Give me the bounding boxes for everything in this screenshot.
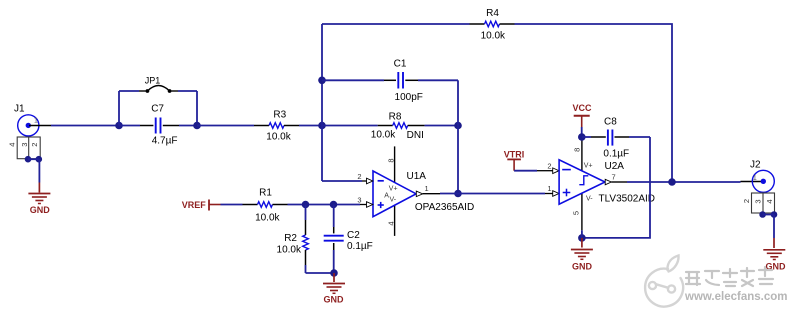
svg-text:V-: V- bbox=[390, 196, 397, 203]
svg-text:3: 3 bbox=[753, 199, 762, 203]
wire C8 right down bbox=[582, 137, 650, 238]
capacitor C7 bbox=[119, 104, 197, 147]
svg-text:www.elecfans.com: www.elecfans.com bbox=[684, 291, 787, 303]
node junction C2 top bbox=[330, 201, 338, 209]
resistor R3 10.0k bbox=[254, 110, 299, 143]
node junction output U1A bbox=[454, 190, 462, 198]
jumper JP1 bbox=[119, 76, 197, 126]
node junction (JP1 right) bbox=[193, 122, 201, 130]
svg-text:R4: R4 bbox=[486, 8, 499, 19]
svg-text:0.1µF: 0.1µF bbox=[347, 241, 373, 252]
svg-text:2: 2 bbox=[742, 199, 751, 203]
svg-text:3: 3 bbox=[20, 143, 29, 147]
wire R1 to pin3 bbox=[288, 204, 361, 206]
wire R8 to right node bbox=[425, 125, 458, 127]
svg-text:DNI: DNI bbox=[407, 130, 424, 141]
svg-text:A: A bbox=[384, 192, 389, 199]
svg-text:4: 4 bbox=[7, 143, 16, 147]
resistor R4 10.0k bbox=[470, 8, 515, 42]
connector J2 bbox=[741, 160, 778, 218]
svg-text:1: 1 bbox=[34, 118, 38, 125]
svg-text:JP1: JP1 bbox=[145, 76, 161, 86]
svg-text:J2: J2 bbox=[750, 160, 761, 171]
node junction C1 left bbox=[318, 77, 326, 85]
wire main to R8 bbox=[322, 125, 378, 127]
svg-text:C1: C1 bbox=[394, 59, 407, 70]
svg-text:10.0k: 10.0k bbox=[277, 245, 302, 256]
svg-text:10.0k: 10.0k bbox=[266, 132, 291, 143]
svg-text:GND: GND bbox=[324, 295, 345, 305]
power flag VREF bbox=[182, 200, 221, 211]
svg-text:2: 2 bbox=[357, 172, 361, 181]
connector J1 bbox=[7, 104, 42, 163]
svg-text:3: 3 bbox=[357, 196, 361, 205]
wire to R3 bbox=[197, 125, 254, 127]
wire VTRI to pin2 U2A bbox=[514, 170, 537, 172]
svg-text:C2: C2 bbox=[347, 230, 360, 241]
svg-text:4.7µF: 4.7µF bbox=[152, 136, 178, 147]
node junction R2 top bbox=[302, 201, 310, 209]
node junction R8 right bbox=[454, 122, 462, 130]
svg-text:C7: C7 bbox=[151, 104, 164, 115]
wire U1A output bbox=[440, 193, 545, 195]
svg-text:V+: V+ bbox=[584, 162, 593, 169]
capacitor C2 0.1uF bbox=[324, 205, 373, 274]
svg-text:R3: R3 bbox=[273, 110, 286, 121]
resistor R1 10.0k bbox=[243, 188, 288, 224]
svg-text:OPA2365AID: OPA2365AID bbox=[415, 202, 474, 213]
svg-text:7: 7 bbox=[612, 172, 616, 181]
svg-text:U2A: U2A bbox=[605, 161, 625, 172]
svg-text:4: 4 bbox=[765, 199, 774, 203]
ground GND (J1) bbox=[28, 159, 50, 215]
svg-text:VCC: VCC bbox=[572, 103, 592, 113]
svg-text:1: 1 bbox=[547, 184, 551, 193]
svg-text:V-: V- bbox=[586, 196, 593, 203]
wire top right + down bbox=[515, 24, 673, 182]
wire top feedback bbox=[322, 23, 470, 25]
svg-text:U1A: U1A bbox=[407, 171, 427, 182]
svg-text:100pF: 100pF bbox=[395, 92, 423, 103]
node main junction bbox=[318, 122, 326, 130]
svg-text:J1: J1 bbox=[14, 104, 25, 115]
wire J1 to JP1 node bbox=[51, 125, 119, 127]
op-amp U1A OPA2365AID bbox=[357, 146, 474, 236]
wire R3 to main node bbox=[299, 125, 322, 127]
power flag VCC bbox=[572, 103, 592, 137]
svg-text:0.1µF: 0.1µF bbox=[603, 149, 629, 160]
watermark logo bbox=[645, 256, 683, 307]
resistor R2 10.0k bbox=[277, 205, 309, 274]
J1 pin1 lead bbox=[29, 125, 51, 127]
node junction output U2A bbox=[668, 178, 676, 186]
svg-text:5: 5 bbox=[572, 211, 581, 215]
node junction VCC bbox=[578, 133, 586, 141]
wire U2A output to J2 bbox=[627, 181, 741, 183]
wire R2 bottom bbox=[306, 272, 335, 274]
wire vertical left branch bbox=[321, 24, 323, 181]
node junction R2/C2 bottom bbox=[330, 269, 338, 277]
svg-text:GND: GND bbox=[572, 261, 593, 271]
node junction U2A gnd bbox=[578, 234, 586, 242]
comparator U2A TLV3502AID bbox=[537, 139, 655, 230]
svg-text:VTRI: VTRI bbox=[504, 150, 525, 160]
svg-text:10.0k: 10.0k bbox=[255, 213, 280, 224]
capacitor C8 0.1uF bbox=[582, 117, 650, 160]
svg-text:4: 4 bbox=[386, 221, 395, 225]
svg-text:10.0k: 10.0k bbox=[481, 31, 506, 42]
wire VREF to R1 bbox=[221, 204, 243, 206]
resistor R8 10.0k DNI bbox=[371, 111, 425, 141]
ground GND (R2/C2) bbox=[323, 273, 345, 305]
svg-text:R1: R1 bbox=[259, 188, 272, 199]
svg-text:1: 1 bbox=[425, 184, 429, 193]
svg-text:2: 2 bbox=[30, 143, 39, 147]
watermark CJK text bbox=[686, 267, 773, 286]
svg-text:8: 8 bbox=[573, 148, 582, 152]
svg-text:R2: R2 bbox=[284, 233, 297, 244]
svg-text:GND: GND bbox=[30, 205, 51, 215]
node junction (JP1 left) bbox=[115, 122, 123, 130]
ground GND (J2) bbox=[763, 215, 786, 272]
power flag VTRI bbox=[504, 150, 525, 171]
wire pin5 to gnd node bbox=[581, 230, 583, 238]
svg-text:V+: V+ bbox=[389, 185, 398, 192]
svg-text:VREF: VREF bbox=[182, 200, 207, 210]
svg-text:C8: C8 bbox=[604, 117, 617, 128]
svg-text:8: 8 bbox=[386, 158, 395, 162]
svg-text:10.0k: 10.0k bbox=[371, 129, 396, 140]
svg-text:TLV3502AID: TLV3502AID bbox=[599, 194, 656, 205]
capacitor C1 100pF bbox=[322, 59, 458, 104]
svg-text:R8: R8 bbox=[389, 111, 402, 122]
wire pin2 horizontal bbox=[322, 180, 362, 182]
wire vertical right branch bbox=[457, 80, 459, 193]
svg-text:1: 1 bbox=[753, 175, 757, 182]
svg-text:2: 2 bbox=[547, 162, 551, 171]
ground GND (U2A) bbox=[571, 238, 593, 271]
